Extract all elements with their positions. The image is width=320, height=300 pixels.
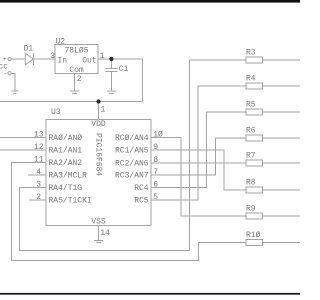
svg-text:8: 8 <box>153 156 158 165</box>
svg-text:Out: Out <box>82 57 96 66</box>
resistor R7 <box>246 152 300 167</box>
svg-text:RCØ/AN4: RCØ/AN4 <box>115 134 149 143</box>
microcontroller U3 PIC16F684 <box>46 108 151 227</box>
ground C1 <box>107 91 116 93</box>
svg-text:RA4/T1G: RA4/T1G <box>49 184 83 193</box>
terminal + (Vcc input) <box>3 56 11 63</box>
svg-text:RAØ/ANØ: RAØ/ANØ <box>49 134 83 143</box>
wire + terminal to D1 <box>11 58 25 60</box>
svg-text:R5: R5 <box>246 101 256 110</box>
svg-text:13: 13 <box>34 131 44 140</box>
resistor R10 <box>246 231 300 246</box>
svg-text:R4: R4 <box>246 75 256 84</box>
svg-text:2: 2 <box>36 193 41 202</box>
resistor R4 <box>246 75 300 90</box>
svg-text:R1Ø: R1Ø <box>246 231 261 240</box>
resistor R6 <box>246 127 300 142</box>
svg-text:R6: R6 <box>246 127 256 136</box>
svg-text:RC2/AN6: RC2/AN6 <box>115 160 149 169</box>
wire down right side <box>142 59 144 102</box>
wire RA3 pin 4 stub <box>28 174 46 176</box>
svg-text:78LØ5: 78LØ5 <box>65 47 89 56</box>
svg-text:U3: U3 <box>51 108 61 117</box>
wire D1 to U2 pin 3 <box>33 58 55 60</box>
resistor R3 <box>246 49 300 64</box>
svg-text:VSS: VSS <box>91 218 106 227</box>
svg-text:U2: U2 <box>56 38 66 47</box>
wire U2 com to ground <box>74 73 76 91</box>
svg-text:12: 12 <box>34 143 44 152</box>
capacitor C1 <box>106 59 129 91</box>
svg-text:1: 1 <box>100 52 105 61</box>
wire RA5 pin 2 stub <box>29 199 46 201</box>
border top bar <box>0 0 300 3</box>
diode D1 <box>24 45 34 65</box>
wire RA1 pin 12 <box>0 149 46 151</box>
wire RA4 pin 3 to R3 <box>20 60 190 251</box>
svg-text:VDD: VDD <box>91 120 106 129</box>
wire pin 5 RC5 to R4 <box>151 86 246 200</box>
junction dot U2 out <box>109 57 113 61</box>
svg-text:1Ø: 1Ø <box>153 131 163 140</box>
svg-text:-: - <box>3 71 7 78</box>
wire RA2 pin 11 to R10 <box>12 163 199 261</box>
ground (input minus) <box>11 91 18 93</box>
svg-text:4: 4 <box>36 168 41 177</box>
svg-text:RC3/AN7: RC3/AN7 <box>115 172 149 181</box>
svg-text:RA1/AN1: RA1/AN1 <box>49 147 83 156</box>
wire pin 10 RC0 to R9 <box>151 138 246 217</box>
svg-text:6: 6 <box>153 181 158 190</box>
svg-text:9: 9 <box>153 143 158 152</box>
svg-text:2: 2 <box>77 75 82 84</box>
wire pin 8 RC2 to R7 <box>151 162 246 164</box>
wire - terminal to ground <box>11 73 15 91</box>
svg-text:Com: Com <box>69 66 84 75</box>
svg-text:PIC16F684: PIC16F684 <box>94 133 103 176</box>
svg-text:RC5: RC5 <box>134 197 149 206</box>
svg-text:R7: R7 <box>246 152 256 161</box>
resistor R8 <box>246 179 300 194</box>
junction dot VDD rail <box>96 99 100 103</box>
wire RA0 pin 13 <box>0 137 46 139</box>
wire Vcc rail <box>0 101 143 103</box>
regulator U2 78L05 <box>55 38 98 76</box>
svg-text:RC4: RC4 <box>134 184 149 193</box>
svg-text:C1: C1 <box>119 65 129 74</box>
wire pin 6 RC4 to R5 <box>151 112 246 188</box>
wire vdd stem to U3 <box>98 102 100 120</box>
svg-text:RA2/AN2: RA2/AN2 <box>49 159 83 168</box>
svg-text:7: 7 <box>153 168 158 177</box>
wire pin 7 RC3 to R6 <box>151 138 246 175</box>
svg-text:RC1/AN5: RC1/AN5 <box>115 147 149 156</box>
svg-text:3: 3 <box>50 52 55 61</box>
ground U2 <box>70 91 79 93</box>
border bottom line <box>0 293 300 295</box>
svg-text:14: 14 <box>100 229 110 238</box>
svg-text:5: 5 <box>153 193 158 202</box>
svg-text:In: In <box>58 57 68 66</box>
svg-text:R9: R9 <box>246 205 256 214</box>
svg-text:RA5/T1CKI: RA5/T1CKI <box>49 197 92 206</box>
resistor R5 <box>246 101 300 116</box>
svg-text:R3: R3 <box>246 49 256 58</box>
svg-text:3: 3 <box>36 181 41 190</box>
resistor R9 <box>246 205 300 220</box>
wire VSS to ground <box>98 226 100 241</box>
ground U3 <box>94 240 103 242</box>
svg-text:D1: D1 <box>24 45 34 54</box>
svg-text:RA3/MCLR: RA3/MCLR <box>49 172 88 181</box>
svg-text:11: 11 <box>34 156 44 165</box>
wire R10 left <box>199 242 247 244</box>
terminal - <box>3 71 11 78</box>
wire pin 9 RC1 to R8 <box>151 150 246 190</box>
svg-text:1: 1 <box>101 106 106 115</box>
svg-text:R8: R8 <box>246 179 256 188</box>
wire R3 left <box>190 59 247 61</box>
wire U2 out <box>98 58 143 60</box>
